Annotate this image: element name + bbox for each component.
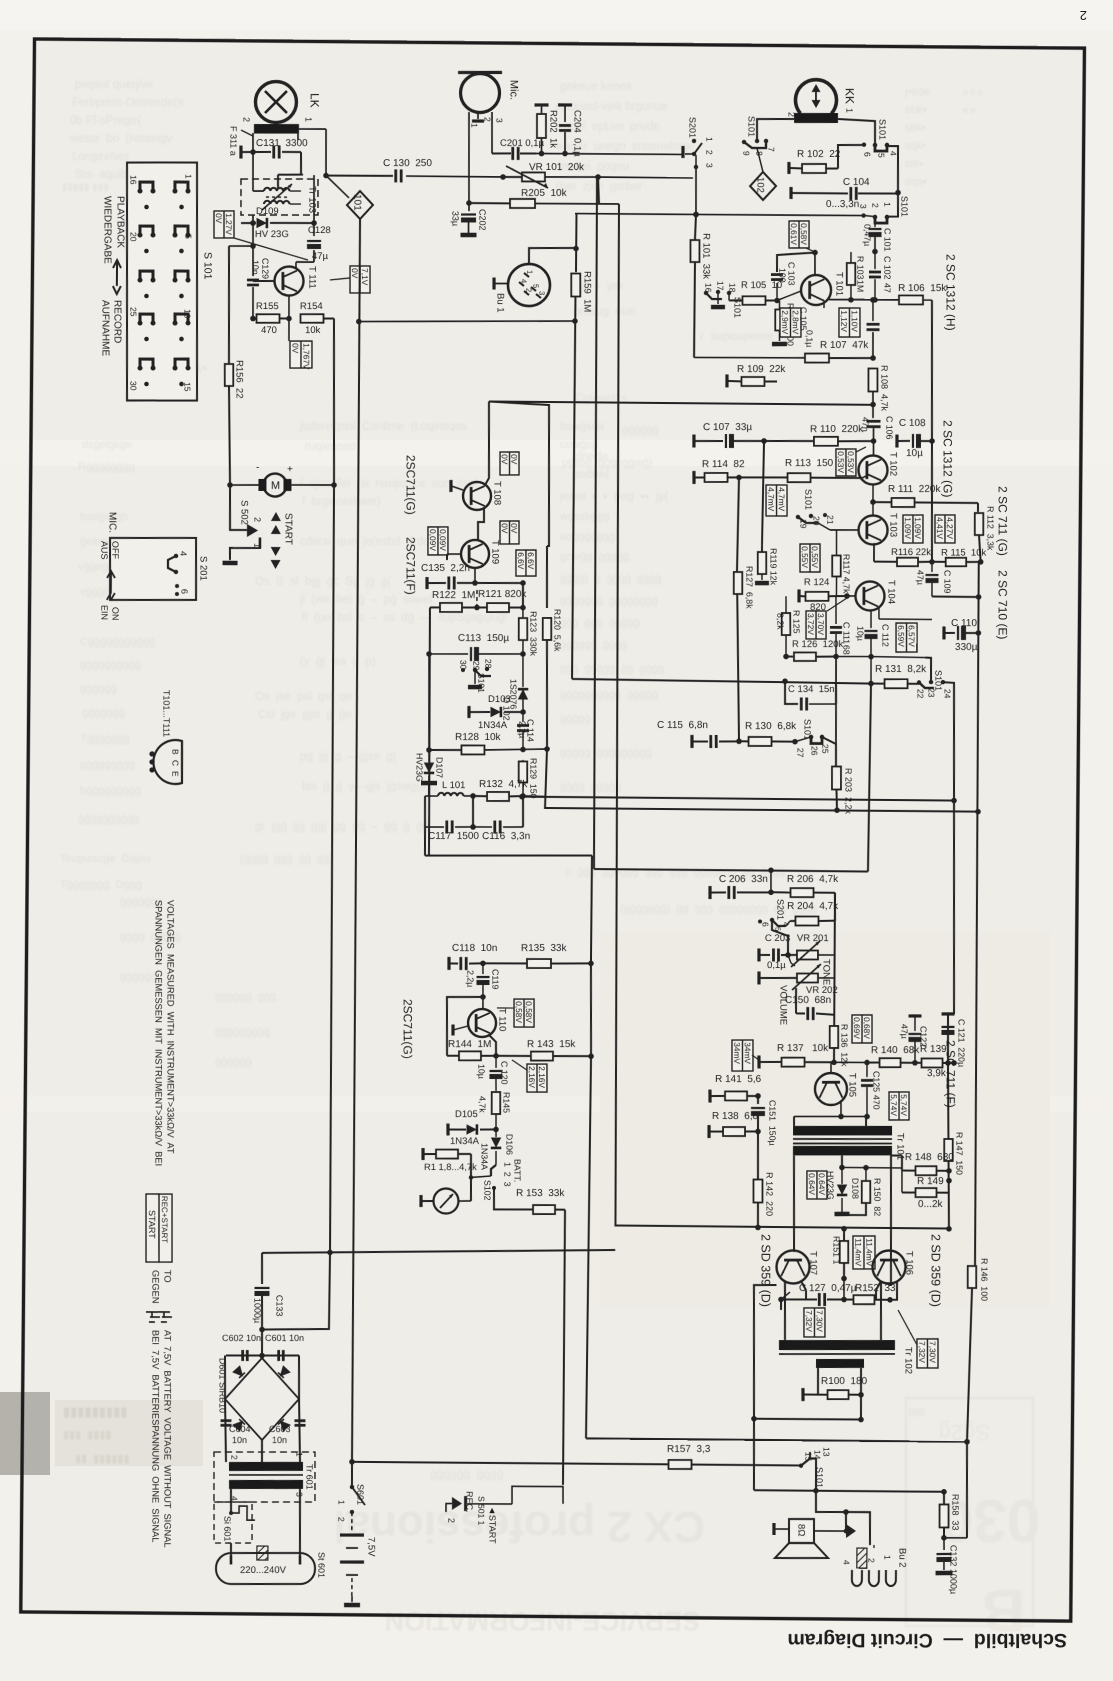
wire speaker rail 1489 <box>754 1490 944 1492</box>
svg-text:1: 1 <box>882 202 892 207</box>
svg-text:1N34A: 1N34A <box>478 720 508 731</box>
svg-text:0V: 0V <box>350 268 360 279</box>
svg-text:0,1µ: 0,1µ <box>767 960 786 971</box>
svg-text:6: 6 <box>760 922 770 927</box>
svg-text:102: 102 <box>755 177 766 193</box>
svg-text:0,55V: 0,55V <box>800 546 810 568</box>
svg-text:R119 12k: R119 12k <box>768 548 778 586</box>
svg-text:S102: S102 <box>482 1180 492 1201</box>
resistor R151 1 <box>840 1241 849 1263</box>
resistor R123 330k <box>519 618 528 640</box>
svg-text:C116 3,3n: C116 3,3n <box>482 831 530 842</box>
transformer Tr102 <box>779 1340 895 1350</box>
svg-text:10n: 10n <box>272 1435 287 1445</box>
svg-text:S101: S101 <box>746 116 756 137</box>
switch S201 MIC box <box>110 538 196 600</box>
svg-text:D103: D103 <box>488 694 511 705</box>
svg-text:4: 4 <box>519 279 528 283</box>
voltage box 3.72V 3.70V <box>806 611 826 639</box>
capacitor C102 47 <box>874 252 876 270</box>
svg-text:1,27V: 1,27V <box>224 213 234 235</box>
svg-text:REC+START: REC+START <box>160 1196 169 1243</box>
svg-text:HV 23G: HV 23G <box>255 229 289 240</box>
resistor R120 5.6k <box>546 546 547 608</box>
svg-text:S 502: S 502 <box>238 500 249 525</box>
svg-text:peqsut querjive: peqsut querjive <box>75 79 153 91</box>
wire Bu1 top to R159 line <box>529 248 576 265</box>
svg-text:R 203 2,2k: R 203 2,2k <box>843 768 853 815</box>
svg-text:20: 20 <box>128 232 138 242</box>
T110 emitter down <box>489 1035 496 1056</box>
svg-text:C119: C119 <box>490 969 500 989</box>
svg-text:(y ġj wa ġ p): (y ġj wa ġ p) <box>300 656 376 668</box>
svg-text:7,30V: 7,30V <box>815 1310 825 1332</box>
svg-text:10n: 10n <box>250 260 260 275</box>
svg-text:C 105: C 105 <box>798 307 808 331</box>
svg-text:E: E <box>170 771 180 777</box>
svg-text:R 126 120k: R 126 120k <box>792 639 843 650</box>
svg-text:R144 1M: R144 1M <box>448 1039 491 1050</box>
switch bank S101 box <box>127 163 197 401</box>
voltage box 2.16V 2.16V <box>527 1064 547 1092</box>
svg-text:R129 150: R129 150 <box>528 758 538 799</box>
svg-text:R 204 4,7k: R 204 4,7k <box>787 901 839 912</box>
Tr101 secondary right lead <box>889 1156 892 1286</box>
wire S201-5 down to C203 node <box>772 920 789 955</box>
svg-text:C 106: C 106 <box>884 416 894 440</box>
speaker <box>789 1519 814 1543</box>
svg-text:2 SC 1312 (G): 2 SC 1312 (G) <box>941 420 955 497</box>
transistor T110 <box>468 1009 496 1037</box>
Tr601 windings <box>229 1462 303 1471</box>
svg-text:6: 6 <box>862 152 872 157</box>
wire R132 node to long rail <box>523 795 545 798</box>
voltage box 5.74V 5.74V <box>889 1092 909 1120</box>
svg-text:30: 30 <box>128 381 138 391</box>
svg-text:R 103: R 103 <box>855 256 865 280</box>
resistor R125 8.2k <box>782 613 791 635</box>
svg-text:C 101: C 101 <box>882 228 892 252</box>
wire T105 base node right <box>834 1061 867 1063</box>
erase head LK <box>255 81 296 122</box>
resistor R146 100 <box>968 1266 977 1288</box>
svg-text:START: START <box>282 513 293 545</box>
svg-text:R127 6,8k: R127 6,8k <box>744 566 754 609</box>
svg-text:34mV: 34mV <box>743 1042 753 1064</box>
svg-text:C128: C128 <box>308 225 331 236</box>
svg-text:PLAYBACK: PLAYBACK <box>115 196 126 248</box>
svg-text:R116 22k: R116 22k <box>891 547 931 558</box>
wire LK cluster to R159 bus <box>359 319 575 323</box>
T105 emitter and C125 <box>840 1101 842 1117</box>
svg-text:0,53V: 0,53V <box>846 451 856 473</box>
resistor R104 100 <box>775 309 784 330</box>
svg-text:0V: 0V <box>290 343 300 354</box>
svg-text:2,16V: 2,16V <box>527 1066 537 1088</box>
transformer Tr103 dashed box <box>241 179 318 215</box>
svg-text:AUS: AUS <box>99 541 109 560</box>
svg-text:R132 4,7k: R132 4,7k <box>479 779 528 790</box>
svg-text:R202 1k: R202 1k <box>548 110 559 148</box>
svg-text:2SC711(G): 2SC711(G) <box>404 455 418 515</box>
voltage box 6.6V 6.6V <box>516 550 536 576</box>
svg-text:5: 5 <box>531 284 540 288</box>
KK head core bar <box>794 113 838 123</box>
resistor R108 4.7k <box>868 368 877 391</box>
resistor R112 3.3k <box>977 503 979 512</box>
svg-text:7,32V: 7,32V <box>804 1310 814 1332</box>
bridge rectifier D601 SIRB10 <box>259 1353 265 1359</box>
svg-text:ġġġġġġ ġġġġ: ġġġġġġ ġġġġ <box>430 1467 503 1481</box>
transistor T103 <box>858 515 887 544</box>
svg-text:R 138 6,8: R 138 6,8 <box>712 1111 759 1122</box>
svg-text:D108: D108 <box>850 1178 860 1199</box>
wire motor bus to C133 bottom <box>262 1252 330 1330</box>
svg-text:0V: 0V <box>509 523 519 534</box>
svg-text:330µ: 330µ <box>955 642 978 653</box>
svg-text:Os S sl bġj ġc Sġ jġ ġ(: Os S sl bġj ġc Sġ jġ ġ( <box>255 576 391 588</box>
svg-text:10µ: 10µ <box>855 626 865 641</box>
svg-text:C129: C129 <box>260 258 270 279</box>
svg-text:T 109: T 109 <box>489 540 500 564</box>
switch S101 contacts 4 5 6 <box>862 142 866 146</box>
svg-text:T 111: T 111 <box>306 266 317 289</box>
capacitor C204 0.1u <box>558 103 572 106</box>
svg-text:▮▮▮▮▮▮▮▮▮: ▮▮▮▮▮▮▮▮▮ <box>63 1404 127 1419</box>
voltage box 0.53V 0.53V <box>836 449 856 476</box>
svg-text:3,70V: 3,70V <box>816 613 826 635</box>
svg-text:Tġġġġġġġ: Tġġġġġġġ <box>80 733 130 745</box>
svg-text:T 106: T 106 <box>903 1251 914 1275</box>
svg-text:Mic.: Mic. <box>508 80 520 100</box>
wire KK right lead to S101-4 <box>838 119 875 143</box>
svg-text:1: 1 <box>336 1500 346 1505</box>
svg-text:ġġġġġġġġġġ ġġġġġ: ġġġġġġġġġġ ġġġġġ <box>560 689 658 701</box>
wire S101-4 to C104 node <box>887 146 899 193</box>
resistor R203 2.2k <box>822 737 836 766</box>
Si601 fuse <box>230 1489 233 1513</box>
svg-text:S 201: S 201 <box>197 556 208 581</box>
resistor R158 33 <box>940 1504 949 1527</box>
svg-text:0,09V: 0,09V <box>428 529 438 551</box>
transistor T104 <box>855 581 884 610</box>
svg-text:C150 68n: C150 68n <box>785 995 831 1006</box>
diamond node 101 <box>326 176 349 198</box>
voltage box 2.9mV 2.8mV <box>780 308 801 337</box>
wire collector feedback to R146 bus <box>586 1438 967 1441</box>
svg-text:47µ: 47µ <box>312 251 329 262</box>
svg-text:R122 1M: R122 1M <box>432 590 475 601</box>
svg-text:pġsoġ ġġġbġġwġ): pġsoġ ġġġbġġwġ) <box>562 457 653 469</box>
svg-text:cđersi que jo(esbđ đrđouslr: cđersi que jo(esbđ đrđouslr <box>300 536 448 548</box>
svg-text:R 148 680: R 148 680 <box>905 1152 954 1163</box>
resistor R136 12k <box>830 1026 839 1048</box>
svg-text:TONE: TONE <box>821 959 832 985</box>
svg-text:1: 1 <box>469 123 479 128</box>
svg-text:C 127 0,47µ: C 127 0,47µ <box>799 1283 857 1294</box>
svg-text:Bu 1: Bu 1 <box>495 293 506 313</box>
svg-text:6,6V: 6,6V <box>516 552 526 570</box>
svg-text:Si 601: Si 601 <box>222 1516 232 1542</box>
svg-text:4: 4 <box>841 1560 851 1565</box>
svg-text:cowġoġ: cowġoġ <box>560 439 598 451</box>
voltage box 0.64V 0.64V <box>807 1171 827 1199</box>
svg-text:S 101: S 101 <box>202 252 214 280</box>
svg-text:2: 2 <box>446 1518 456 1523</box>
svg-text:4,7mV: 4,7mV <box>777 487 787 511</box>
voltage box 0V 1.767V <box>290 341 312 368</box>
svg-text:C 134 15n: C 134 15n <box>788 684 834 695</box>
svg-text:0V: 0V <box>214 213 224 224</box>
svg-text:BATT.: BATT. <box>512 1159 522 1182</box>
svg-text:1,10V: 1,10V <box>850 310 860 332</box>
svg-text:TO: TO <box>162 1270 172 1283</box>
wire S501 to R153 bus <box>467 1503 512 1506</box>
svg-text:C151 150µ: C151 150µ <box>767 1100 777 1146</box>
svg-text:0,53V: 0,53V <box>836 451 846 473</box>
svg-text:R121 820k: R121 820k <box>478 589 527 600</box>
svg-text:0...3,3n: 0...3,3n <box>826 199 859 210</box>
resistor R150 82 <box>862 1181 871 1203</box>
connector Bu1 <box>508 264 550 306</box>
svg-text:HV23G: HV23G <box>414 753 424 782</box>
svg-text:2 SD 359 (D): 2 SD 359 (D) <box>929 1234 943 1307</box>
svg-text:S201: S201 <box>775 899 785 920</box>
svg-text:33µ: 33µ <box>450 211 460 226</box>
wire S101-14 down to output <box>816 1491 846 1513</box>
wire motor right to bus <box>292 484 335 487</box>
svg-text:R205 10k: R205 10k <box>521 188 568 199</box>
svg-text:bowġsrel: bowġsrel <box>560 421 604 433</box>
svg-text:ġġġġġġ: ġġġġġġ <box>80 683 117 695</box>
wire left bus x429 <box>428 607 431 855</box>
svg-text:Tr 601: Tr 601 <box>304 1464 314 1490</box>
transistor T111 <box>274 266 303 295</box>
svg-text:C113 150µ: C113 150µ <box>458 633 509 644</box>
svg-text:R 124: R 124 <box>804 577 829 588</box>
svg-text:Tr 103: Tr 103 <box>306 186 317 213</box>
svg-text:1 2 3: 1 2 3 <box>502 1162 512 1187</box>
svg-text:R156 22: R156 22 <box>234 360 245 399</box>
svg-text:+: + <box>287 464 293 475</box>
svg-text:0,61V: 0,61V <box>789 223 799 245</box>
svg-text:AT 7,5V BATTERY VOLTAGE WI: AT 7,5V BATTERY VOLTAGE WITHOUT SIGNAL <box>162 1330 172 1548</box>
svg-text:27: 27 <box>795 748 805 758</box>
svg-text:▮▮ ▮▮▮▮▮▮: ▮▮ ▮▮▮▮▮▮ <box>75 1453 130 1465</box>
svg-text:C201 0,1µ: C201 0,1µ <box>500 138 545 149</box>
record head KK <box>795 79 836 113</box>
transistor T107 <box>776 1250 809 1283</box>
svg-text:47µ: 47µ <box>915 570 925 585</box>
voltage boxes 0V 0V lower <box>500 521 519 544</box>
svg-text:R152 33: R152 33 <box>855 1283 896 1294</box>
svg-text:Tġġġġġġġ Dġġġ: Tġġġġġġġ Dġġġ <box>60 879 142 891</box>
potentiometer VR202 VOLUME <box>757 971 760 984</box>
wire motor bus down to S502 <box>230 485 248 530</box>
wire KK left lead to S101-7 <box>757 119 794 141</box>
svg-text:eqs▪: eqs▪ <box>905 176 927 188</box>
resistor R119 12k <box>761 545 763 552</box>
bus from node 101 down to supply switch <box>349 219 363 1462</box>
voltage box 1.12V 1.10V <box>839 308 860 337</box>
mode arrow <box>113 260 121 294</box>
svg-text:RECORD: RECORD <box>112 300 123 343</box>
voltage box 0V 1.27V <box>214 211 234 238</box>
svg-text:8Ω: 8Ω <box>795 1524 806 1536</box>
resistor R103 1M <box>847 263 856 285</box>
svg-text:4: 4 <box>888 151 898 156</box>
svg-text:101: 101 <box>351 194 362 211</box>
svg-text:2 SC 711 (G): 2 SC 711 (G) <box>996 486 1010 556</box>
svg-text:▮▮▮ ▮▮▮▮: ▮▮▮ ▮▮▮▮ <box>63 1429 112 1441</box>
svg-text:5,74V: 5,74V <box>899 1094 909 1116</box>
svg-text:dsġelgkġe: dsġelgkġe <box>82 439 132 451</box>
wire emitters to C127/R152 rail <box>805 1290 807 1300</box>
T104 collector to bus <box>878 608 880 619</box>
svg-text:ġr jġġ jjġ ġġj ġġ ġġ –: ġr jġġ jjġ ġġj ġġ ġġ – ġġ ġ ġġ <box>255 821 429 833</box>
svg-text:ġġġġġġ: ġġġġġġ <box>120 971 157 983</box>
svg-text:ġġġġġġ: ġġġġġġ <box>215 1056 252 1068</box>
svg-text:R145: R145 <box>501 1092 511 1113</box>
voltage box 0.61V 0.58V <box>789 221 809 248</box>
svg-text:C133: C133 <box>274 1295 284 1317</box>
voltage box 4.7mV 4.7mV <box>766 485 787 516</box>
svg-text:S101: S101 <box>803 489 813 510</box>
Tr103 windings <box>264 188 290 191</box>
svg-text:R 102 22: R 102 22 <box>797 149 841 160</box>
svg-text:R 147 150: R 147 150 <box>954 1132 964 1175</box>
svg-text:10n: 10n <box>232 1435 247 1445</box>
svg-text:ġġġġ ġġġġġ: ġġġġ ġġġġġ <box>560 781 621 793</box>
svg-text:26: 26 <box>809 746 819 756</box>
svg-text:F 311 a: F 311 a <box>228 126 238 156</box>
voltage box 6.59V 6.57V <box>896 623 917 652</box>
svg-text:Cġġġġġġġġġġġ: Cġġġġġġġġġġġ <box>80 636 155 648</box>
svg-text:3: 3 <box>494 118 504 123</box>
voltage box 0.69V 0.68V <box>852 1015 872 1043</box>
svg-text:5: 5 <box>183 234 193 239</box>
svg-text:0,58V: 0,58V <box>799 223 809 245</box>
svg-text:SPANNUNGEN GEMESSEN MIT INS: SPANNUNGEN GEMESSEN MIT INSTRUMENT>33kΩ/… <box>153 900 163 1166</box>
S101 bank contacts right column <box>172 189 177 194</box>
svg-text:R 150 82: R 150 82 <box>872 1178 882 1216</box>
wire R114/R127 bus end <box>735 572 740 741</box>
svg-text:C602 10n: C602 10n <box>222 1333 261 1343</box>
svg-text:6,57V: 6,57V <box>907 625 917 647</box>
svg-text:2,2µ: 2,2µ <box>465 970 475 987</box>
svg-text:T 101: T 101 <box>833 272 844 296</box>
St601 plug <box>216 1553 315 1584</box>
transistor T106 <box>872 1250 905 1283</box>
svg-text:R157 3,3: R157 3,3 <box>667 1444 711 1455</box>
svg-text:0,55V: 0,55V <box>810 546 820 568</box>
svg-text:R 142 220: R 142 220 <box>764 1172 774 1216</box>
svg-text:0V: 0V <box>500 454 510 465</box>
T108 emitter to T109 <box>478 508 484 540</box>
svg-text:2 SD 359 (D): 2 SD 359 (D) <box>759 1234 773 1307</box>
wire R205 right down long bus <box>610 204 959 1229</box>
svg-text:C 120: C 120 <box>499 1061 509 1085</box>
svg-text:2 SC 711 (F): 2 SC 711 (F) <box>944 1040 958 1108</box>
svg-text:R 111 220k: R 111 220k <box>888 484 941 495</box>
svg-text:28: 28 <box>483 659 493 669</box>
battery 7.5V <box>340 1533 364 1537</box>
svg-text:21: 21 <box>825 515 835 525</box>
svg-text:START: START <box>147 1210 157 1239</box>
svg-text:D105: D105 <box>455 1109 478 1120</box>
svg-text:17: 17 <box>715 281 725 291</box>
svg-text:0,64V: 0,64V <box>817 1173 827 1195</box>
svg-text:2: 2 <box>524 288 533 292</box>
Tr101 centre tap <box>841 1155 843 1167</box>
svg-text:C603: C603 <box>269 1424 291 1434</box>
svg-text:T 108: T 108 <box>491 481 502 505</box>
svg-text:R117 4,7k: R117 4,7k <box>841 554 851 594</box>
svg-text:1M: 1M <box>855 280 865 292</box>
voltage box 0.55V 0.55V <box>800 544 820 572</box>
transistor T101 <box>801 275 831 305</box>
svg-text:1: 1 <box>844 108 854 113</box>
svg-text:WIEDERGABE: WIEDERGABE <box>102 196 113 264</box>
svg-text:▮▮▮▮▮ ▮▮▮: ▮▮▮▮▮ ▮▮▮ <box>62 182 109 193</box>
svg-text:ġġġġġġ: ġġġġġġ <box>622 424 659 436</box>
tone bus down to T105 base <box>834 893 836 1062</box>
svg-text:r supoupeme ): r supoupeme ) <box>700 329 787 343</box>
svg-text:2: 2 <box>241 117 251 122</box>
svg-text:R 112 3,3k: R 112 3,3k <box>985 506 995 551</box>
svg-text:R135 33k: R135 33k <box>521 943 568 954</box>
svg-text:R 153 33k: R 153 33k <box>516 1188 565 1199</box>
svg-text:3: 3 <box>537 291 546 295</box>
svg-text:R158 33: R158 33 <box>950 1494 960 1531</box>
svg-text:OFF: OFF <box>110 541 120 559</box>
svg-text:ġġġġ) ġ ġġġġ ġġġġ: ġġġġ) ġ ġġġġ ġġġġ <box>560 573 662 585</box>
svg-text:C 130 250: C 130 250 <box>383 158 432 169</box>
transistor T108 <box>463 482 491 510</box>
svg-text:R151 1: R151 1 <box>831 1236 841 1264</box>
svg-text:D106: D106 <box>504 1134 514 1155</box>
svg-text:0,1µ: 0,1µ <box>804 330 814 347</box>
svg-text:C 108: C 108 <box>899 418 926 429</box>
svg-text:ġġġġġġ ġġġ: ġġġġġġ ġġġ <box>215 991 276 1003</box>
svg-text:22: 22 <box>915 689 925 699</box>
svg-text:4,27V: 4,27V <box>945 517 955 539</box>
svg-text:Schaltbild — Circuit Diagram: Schaltbild — Circuit Diagram <box>787 1629 1067 1651</box>
svg-text:0,69V: 0,69V <box>852 1017 862 1039</box>
svg-text:T 107: T 107 <box>807 1251 818 1275</box>
svg-text:jeqel ▪ ▪ peg ▪▪ jy(: jeqel ▪ ▪ peg ▪▪ jy( <box>559 489 668 503</box>
svg-text:C601 10n: C601 10n <box>265 1333 304 1343</box>
svg-text:2: 2 <box>1080 8 1087 23</box>
svg-text:7: 7 <box>766 147 776 152</box>
svg-text:470: 470 <box>871 1095 881 1110</box>
svg-text:2SC711(F): 2SC711(F) <box>404 537 418 595</box>
svg-text:ruqiensed: ruqiensed <box>305 441 356 453</box>
svg-text:C 206 33n: C 206 33n <box>719 874 768 885</box>
svg-text:◄START: ◄START <box>487 1506 497 1544</box>
svg-text:9: 9 <box>741 151 751 156</box>
svg-text:R 109 22k: R 109 22k <box>737 364 786 375</box>
svg-text:1,09V: 1,09V <box>913 517 923 539</box>
svg-text:0b Ff-sPregtr(: 0b Ff-sPregtr( <box>70 115 141 127</box>
svg-text:uoġġġġġġġ: uoġġġġġġġ <box>560 531 615 543</box>
svg-text:2SC711(G): 2SC711(G) <box>401 999 415 1059</box>
svg-text:19: 19 <box>798 519 808 529</box>
svg-text:KK: KK <box>843 88 857 104</box>
svg-text:0,64V: 0,64V <box>807 1173 817 1195</box>
svg-text:bis ġ ġ y—ġjs jġswġ(en): bis ġ ġ y—ġjs jġswġ(en) <box>302 781 437 793</box>
svg-text:8,2k: 8,2k <box>775 613 785 630</box>
